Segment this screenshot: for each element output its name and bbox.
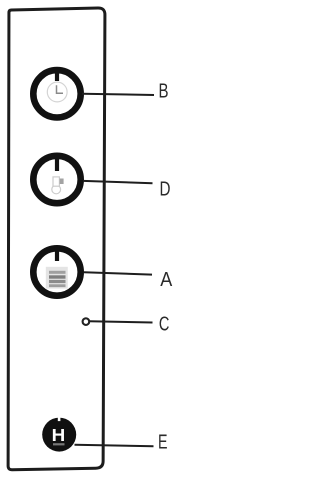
thermometer icon	[52, 177, 64, 194]
knob A (function selector) ring	[33, 248, 80, 295]
svg-text:E: E	[158, 432, 168, 454]
knob B pointer tick	[55, 69, 59, 81]
button E white tick	[58, 417, 61, 421]
leader line D	[83, 181, 153, 183]
leader line A	[84, 272, 152, 274]
leader line C	[90, 321, 153, 322]
knob B (timer) ring	[33, 70, 80, 117]
timer clock icon	[47, 82, 67, 102]
knob D (thermostat) ring	[33, 156, 80, 203]
button E (light, black disc)	[42, 418, 76, 452]
leader line B	[82, 94, 154, 95]
svg-text:D: D	[160, 178, 171, 200]
knob D pointer tick	[55, 155, 59, 172]
leader line E	[75, 445, 154, 446]
button E faint bar	[53, 443, 65, 445]
knob A pointer tick	[55, 247, 59, 261]
panel outline	[8, 8, 105, 470]
indicator lamp C	[83, 318, 90, 325]
svg-text:A: A	[160, 269, 173, 291]
svg-text:C: C	[159, 314, 170, 336]
svg-text:B: B	[159, 81, 169, 103]
grill element icon	[46, 267, 68, 289]
svg-text:H: H	[52, 425, 66, 445]
